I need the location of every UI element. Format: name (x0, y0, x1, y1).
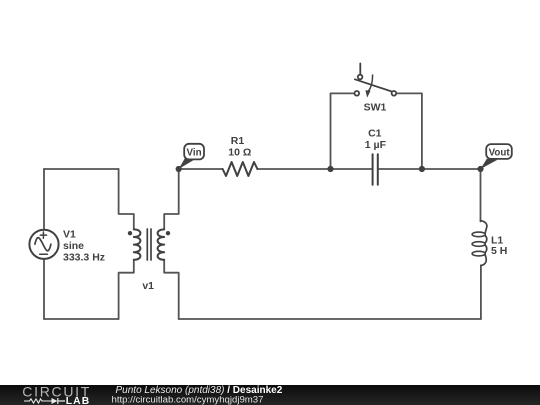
switch SW1 lever (355, 79, 392, 91)
wire Vin node to R1 (179, 168, 223, 170)
node Vout bubble (486, 144, 512, 159)
logo diode triangle (52, 398, 58, 404)
svg-text:C1: C1 (368, 127, 382, 139)
switch SW1 right terminal circle (392, 91, 397, 96)
wire C1 right plate to Vout node (378, 168, 481, 170)
capacitor C1 plates (373, 154, 378, 184)
wire transformer primary top lead (119, 169, 134, 229)
wire Vout node down to L1 (480, 169, 482, 222)
voltage source V1 circle (29, 230, 58, 259)
wire bottom rail (secondary to L1) (179, 318, 481, 320)
V1 sine symbol (35, 238, 51, 251)
svg-text:http://circuitlab.com/cymyhqjd: http://circuitlab.com/cymyhqjdj9m37 (112, 394, 264, 405)
switch SW1 top terminal circle (358, 75, 363, 80)
svg-text:V1: V1 (63, 229, 76, 241)
inductor L1 loop 1 (472, 232, 485, 237)
switch SW1 motion arrow (369, 75, 373, 91)
V1 minus sign (40, 253, 48, 255)
transformer primary phase dot (128, 231, 132, 235)
inductor L1 bottom hook (481, 255, 486, 266)
svg-text:Vin: Vin (187, 148, 202, 159)
wire left rail upper (into V1 source) (43, 169, 45, 230)
wire L1 to bottom rail (480, 265, 482, 319)
transformer secondary phase dot (166, 231, 170, 235)
node Vout pointer (481, 159, 498, 169)
wire left rail lower (out of V1 source) (43, 259, 45, 319)
switch SW1 left terminal circle (355, 91, 360, 96)
inductor L1 labels (491, 234, 507, 257)
wire switch branch right vertical (396, 93, 422, 169)
wire transformer secondary top lead (164, 169, 179, 229)
svg-text:10 Ω: 10 Ω (228, 146, 251, 158)
svg-text:1 µF: 1 µF (365, 139, 387, 151)
node Vin pointer (179, 158, 196, 169)
node Vin bubble (184, 144, 204, 160)
inductor L1 loop 3 (472, 251, 485, 256)
node Vin junction dot (176, 166, 182, 172)
logo diode bar and wire (58, 398, 65, 404)
resistor R1 labels (228, 135, 251, 159)
wire bottom-left horizontal (44, 318, 119, 320)
junction dot at switch branch right (419, 166, 425, 172)
transformer v1 secondary winding (158, 229, 165, 259)
inductor L1 loop 2 (472, 242, 485, 247)
svg-text:333.3 Hz: 333.3 Hz (63, 252, 105, 264)
inductor L1 arc 1-2 (485, 236, 487, 243)
svg-text:sine: sine (63, 240, 84, 252)
V1 plus sign (40, 232, 46, 238)
wire transformer secondary bottom lead (164, 260, 179, 319)
inductor L1 arc 2-3 (485, 245, 487, 252)
V1 value labels (63, 229, 105, 264)
inductor L1 top hook (481, 221, 487, 234)
capacitor C1 labels (365, 127, 387, 151)
svg-text:LAB: LAB (66, 395, 90, 405)
wire transformer primary bottom lead (119, 260, 134, 319)
junction dot at switch branch left (327, 166, 333, 172)
switch SW1 arrowhead (365, 90, 370, 97)
footer bar (0, 385, 540, 405)
transformer core lines (147, 229, 151, 260)
svg-text:5 H: 5 H (491, 245, 507, 257)
logo wire left + resistor zigzag (24, 398, 52, 402)
wire R1 to C1 left plate (257, 168, 372, 170)
wire top-left horizontal (V1 top to transformer primary) (44, 168, 119, 170)
svg-text:R1: R1 (231, 135, 245, 147)
switch SW1 top stub (359, 63, 361, 74)
wire switch branch left vertical (331, 93, 355, 169)
resistor R1 zigzag (223, 162, 258, 176)
svg-text:v1: v1 (142, 280, 154, 292)
svg-text:Vout: Vout (489, 148, 511, 159)
node Vout junction dot (477, 166, 483, 172)
transformer v1 primary winding (134, 229, 141, 259)
svg-text:SW1: SW1 (364, 102, 387, 114)
